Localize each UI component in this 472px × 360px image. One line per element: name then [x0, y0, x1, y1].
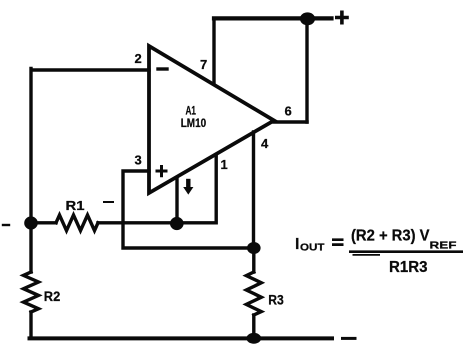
- formula fraction bar echo (scan artifact): [353, 254, 381, 256]
- node: junction dot left rail / R1: [24, 216, 38, 229]
- positive supply terminal (plus sign): [337, 12, 347, 22]
- svg-text:R1R3: R1R3: [389, 259, 428, 276]
- svg-text:(R2 + R3) V: (R2 + R3) V: [351, 228, 430, 245]
- plus sign (non-inverting input of A1): [157, 167, 166, 176]
- svg-text:1: 1: [221, 157, 228, 172]
- minus sign (inverting input of A1): [158, 67, 167, 70]
- wire: node to R3: [252, 248, 255, 272]
- wire: left rail to R1: [31, 221, 56, 224]
- wire: pin 6 output stub: [274, 120, 307, 123]
- scan speck at left margin: [3, 224, 9, 226]
- wire: R1 to pin-8 junction and up to pin 1: [98, 155, 216, 223]
- negative supply terminal (minus tick): [343, 337, 356, 340]
- formula fraction bar: [349, 250, 463, 253]
- svg-text:3: 3: [135, 153, 142, 168]
- wire: pin 7 riser to top rail: [212, 18, 215, 83]
- svg-text:4: 4: [261, 136, 269, 151]
- wire: pin 8 drop from triangle bottom edge: [175, 178, 178, 223]
- wire: output riser from top rail junction down to pin 6: [305, 18, 308, 122]
- wire: R2 bottom to bottom rail: [29, 312, 32, 337]
- wire: left vertical rail (pin2 down to R2 top): [29, 69, 32, 273]
- scan speck near R1 wire: [104, 201, 113, 203]
- wire: R3 bottom to bottom rail: [252, 315, 255, 338]
- wire: pin 4 drop from triangle bottom edge: [252, 132, 255, 248]
- wire: top rail: [214, 16, 332, 20]
- node: junction dot pin4 / pin3 feedback / R3 top: [247, 242, 261, 254]
- current direction arrow (down): [186, 181, 190, 187]
- node: junction dot R3 / bottom rail: [246, 333, 261, 344]
- svg-text:R2: R2: [44, 289, 61, 304]
- svg-text:I: I: [295, 236, 299, 253]
- wire: pin 3 stub left then down and right to pin4/R3 node: [123, 171, 251, 248]
- svg-text:7: 7: [200, 57, 207, 72]
- node: junction dot R1/pin8/pin1: [170, 217, 184, 230]
- svg-text:R3: R3: [268, 293, 284, 308]
- node: junction dot top rail / output riser: [300, 12, 315, 25]
- svg-text:OUT: OUT: [300, 243, 325, 254]
- resistor R1 (zigzag): [56, 215, 98, 231]
- formula equals sign: [332, 240, 344, 245]
- svg-text:R1: R1: [66, 198, 85, 213]
- op-amp A1 (triangle body): [149, 46, 274, 193]
- svg-text:2: 2: [135, 51, 142, 66]
- resistor R2 (zigzag): [24, 272, 39, 312]
- svg-text:6: 6: [285, 104, 292, 119]
- svg-text:LM10: LM10: [181, 116, 207, 130]
- resistor R3 (zigzag): [246, 272, 261, 315]
- wire: pin 2 to left rail: [33, 68, 150, 71]
- wire: bottom rail: [30, 336, 333, 340]
- svg-text:REF: REF: [430, 241, 457, 252]
